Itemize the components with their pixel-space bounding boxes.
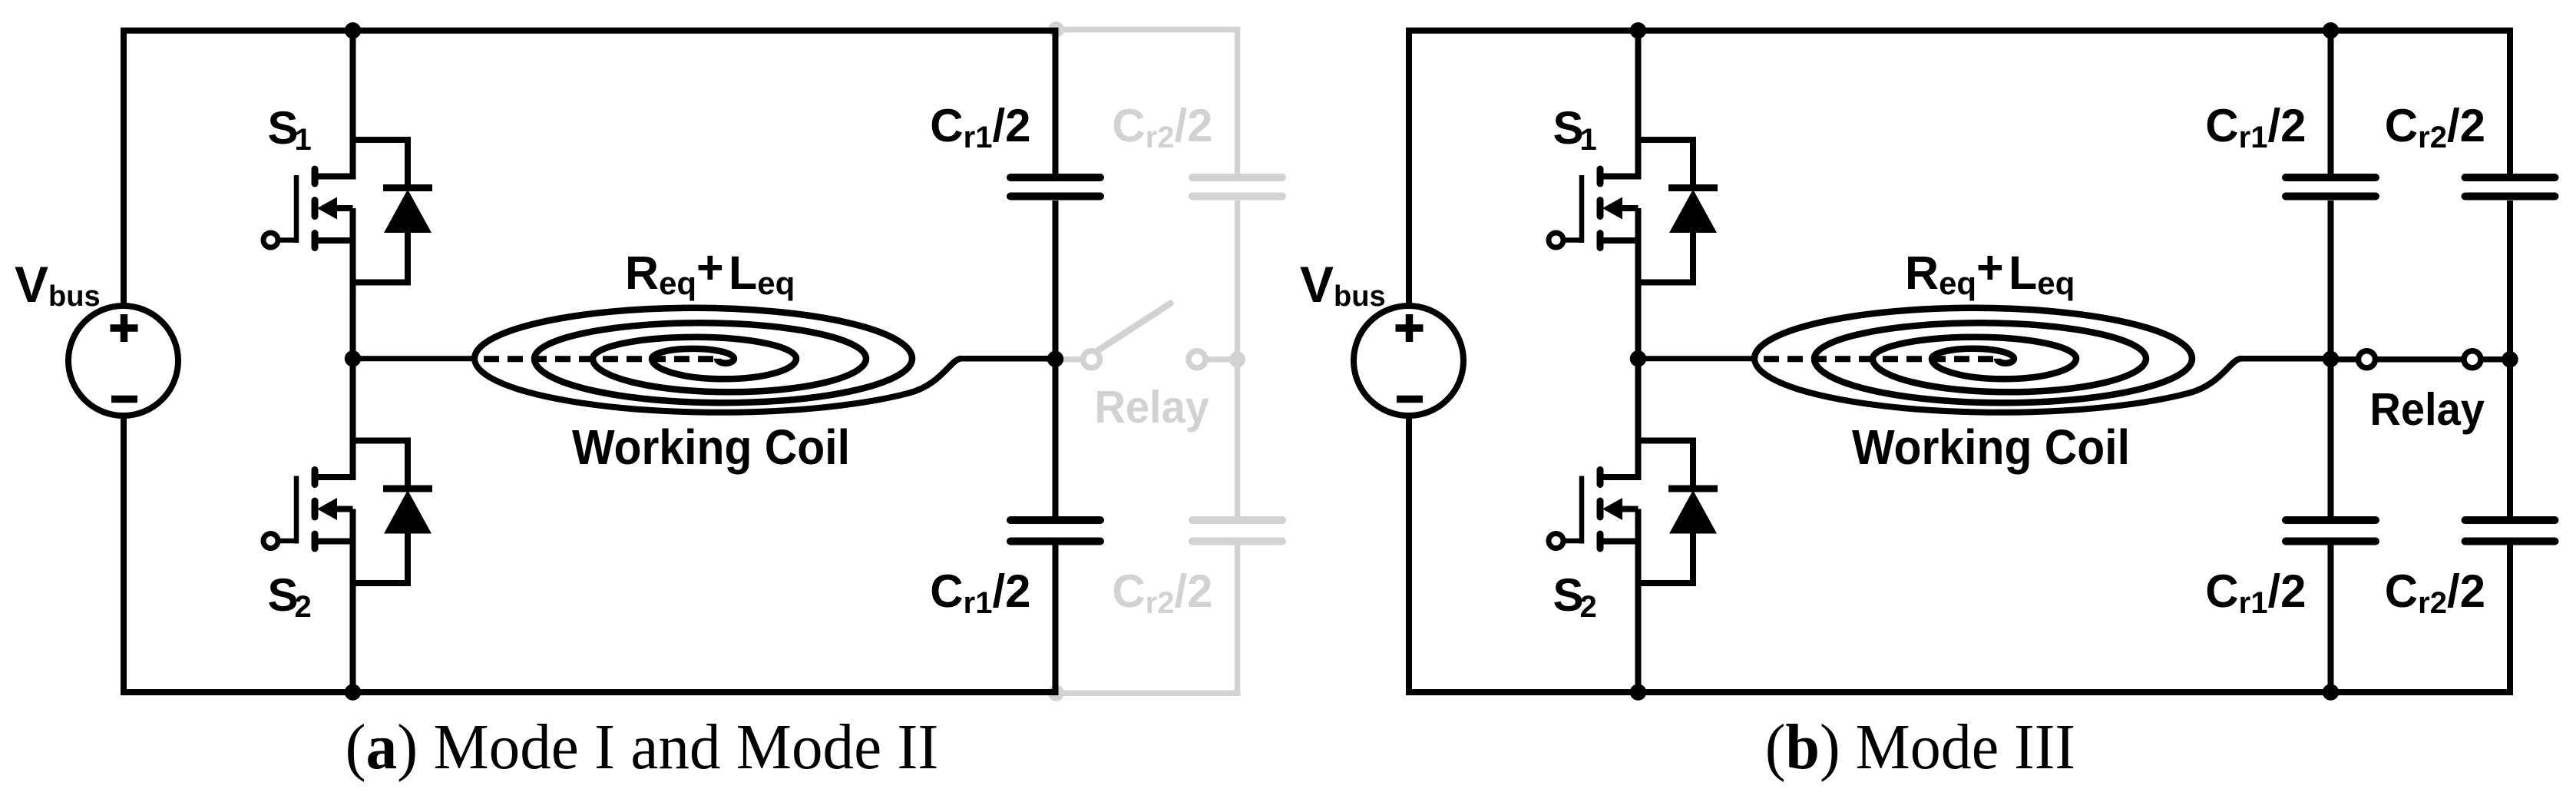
- relay blade closed (b): [2367, 356, 2473, 363]
- wire Cr1 leg upper (b): [2328, 31, 2334, 174]
- wire Cr2 leg upper (a): [1235, 30, 1241, 174]
- wire Cr2 leg middle (a): [1235, 201, 1241, 517]
- node bottom rail / centre leg (b): [1630, 684, 1646, 700]
- svg-text:+: +: [1976, 241, 2004, 293]
- label Vbus (a): [15, 256, 101, 313]
- wire Cr1 leg middle (b): [2328, 201, 2334, 517]
- label Cr1/2 top (b): [2205, 100, 2306, 154]
- label Relay (b): [2369, 385, 2485, 436]
- wire coil exit tail (b): [1754, 359, 2241, 413]
- wire left rail upper (a): [121, 31, 127, 307]
- transistor S1 (b): [1549, 169, 1642, 248]
- transistor S1 (a): [263, 169, 356, 248]
- node top rail / centre leg (b): [1630, 22, 1646, 38]
- wire centre leg middle (b): [1635, 240, 1642, 477]
- wire relay left stub (a): [1056, 356, 1092, 363]
- wire Cr2 leg middle (b): [2507, 201, 2513, 517]
- wire coil axis dashed (a): [484, 356, 720, 362]
- wire mid node to coil (a): [353, 356, 477, 361]
- wire Cr1 leg lower (a): [1053, 545, 1059, 693]
- wire centre leg drain S1 (a): [350, 31, 356, 177]
- wire top rail (a): [121, 28, 1059, 34]
- svg-text:Relay: Relay: [1094, 383, 1209, 433]
- transistor S2 (b): [1549, 470, 1642, 549]
- wire left rail upper (b): [1406, 31, 1412, 307]
- label S2 (a): [268, 569, 312, 624]
- transistor S2 (a): [263, 470, 356, 549]
- capacitor Cr1/2 top (b): [2286, 177, 2376, 197]
- node grey bottom junction (a): [1048, 685, 1064, 701]
- label Working Coil (b): [1852, 420, 2130, 476]
- diode S1 body (b): [1639, 140, 1718, 283]
- svg-text:Working Coil: Working Coil: [572, 420, 850, 476]
- wire top rail Cr2 branch (b): [2331, 28, 2514, 34]
- wire bottom rail Cr2 branch (b): [2331, 689, 2514, 695]
- label Cr2/2 bottom (a): [1112, 565, 1212, 620]
- label S1 (a): [268, 102, 312, 157]
- node grey relay-leg junction (a): [1229, 351, 1245, 367]
- diode S2 body (a): [353, 441, 433, 584]
- wire coil exit tail (a): [475, 359, 961, 413]
- wire relay right stub (a): [1197, 356, 1238, 363]
- wire bottom rail (b): [1406, 689, 2334, 695]
- inductor working coil spiral (b): [1754, 308, 2192, 403]
- caption (b) Mode III: [1765, 711, 2075, 782]
- label Cr1/2 bottom (a): [930, 565, 1030, 620]
- diode S1 body (a): [353, 140, 433, 283]
- voltage source Vbus (a): [68, 306, 178, 416]
- wire Cr2 leg lower (b): [2507, 545, 2513, 693]
- label Relay (a): [1094, 383, 1209, 433]
- wire top rail Cr2 branch (a): [1056, 27, 1241, 33]
- wire coil axis dashed (b): [1764, 356, 2000, 362]
- label Cr2/2 top (a): [1112, 100, 1212, 154]
- svg-text:Working Coil: Working Coil: [1852, 420, 2130, 476]
- wire centre leg drain S1 (b): [1635, 31, 1642, 177]
- wire top rail (b): [1406, 28, 2334, 34]
- node mid / Cr1 leg (a): [1047, 351, 1063, 367]
- node relay right junction (b): [2502, 351, 2518, 367]
- node bottom rail / centre leg (a): [345, 684, 361, 700]
- wire relay left stub (b): [2331, 356, 2367, 363]
- node mid / Cr1 leg (b): [2323, 351, 2339, 367]
- capacitor Cr2/2 bottom (a): [1192, 520, 1282, 542]
- node grey top junction (a): [1048, 22, 1064, 38]
- capacitor Cr1/2 bottom (a): [1010, 520, 1100, 542]
- relay contact circle right (b): [2464, 351, 2481, 368]
- capacitor Cr2/2 top (a): [1192, 177, 1282, 197]
- label Working Coil (a): [572, 420, 850, 476]
- label Cr2/2 top (b): [2385, 100, 2485, 154]
- wire Cr1 leg lower (b): [2328, 545, 2334, 693]
- wire Cr1 leg upper (a): [1053, 31, 1059, 174]
- svg-text:+: +: [696, 241, 724, 293]
- wire coil to Cr1 leg (b): [2240, 356, 2334, 362]
- wire left rail lower (b): [1406, 416, 1412, 693]
- caption (a) Mode I and Mode II: [346, 711, 939, 783]
- wire Cr2 leg lower (a): [1235, 545, 1241, 694]
- inductor working coil spiral (a): [475, 308, 912, 403]
- svg-text:(a) Mode I and Mode II: (a) Mode I and Mode II: [346, 711, 939, 783]
- wire coil to Cr1 leg (a): [960, 356, 1059, 362]
- wire Cr2 leg upper (b): [2507, 31, 2513, 174]
- wire bottom rail Cr2 branch (a): [1056, 690, 1241, 696]
- wire relay right stub (b): [2472, 356, 2510, 363]
- voltage source Vbus (b): [1354, 306, 1463, 416]
- wire mid node to coil (b): [1639, 356, 1757, 361]
- capacitor Cr2/2 top (b): [2465, 177, 2555, 197]
- svg-text:(b) Mode III: (b) Mode III: [1765, 711, 2075, 782]
- node mid / centre leg (a): [345, 350, 361, 366]
- wire centre leg source S2 (b): [1635, 542, 1642, 693]
- label Vbus (b): [1300, 256, 1386, 313]
- label S1 (b): [1553, 102, 1597, 157]
- relay contact circle right (a): [1189, 351, 1205, 368]
- relay contact circle left (b): [2359, 351, 2376, 368]
- label Cr1/2 bottom (b): [2205, 565, 2306, 620]
- wire bottom rail (a): [121, 689, 1059, 695]
- label Cr1/2 top (a): [930, 100, 1030, 154]
- label Req + Leq (b): [1905, 241, 2075, 301]
- capacitor Cr1/2 top (a): [1010, 177, 1100, 197]
- node top rail / Cr1 leg (b): [2323, 22, 2339, 38]
- node top rail / centre leg (a): [345, 22, 361, 38]
- wire Cr1 leg middle (a): [1053, 201, 1059, 517]
- label Req + Leq (a): [625, 241, 795, 301]
- wire centre leg source S2 (a): [350, 542, 356, 693]
- capacitor Cr1/2 bottom (b): [2286, 520, 2376, 542]
- label S2 (b): [1553, 569, 1597, 624]
- capacitor Cr2/2 bottom (b): [2465, 520, 2555, 542]
- wire left rail lower (a): [121, 416, 127, 693]
- relay contact circle left (a): [1083, 351, 1100, 368]
- wire centre leg middle (a): [350, 240, 356, 477]
- node bottom rail / Cr1 leg (b): [2323, 684, 2339, 700]
- label Cr2/2 bottom (b): [2385, 565, 2485, 620]
- relay blade open (a): [1099, 303, 1171, 350]
- diode S2 body (b): [1639, 441, 1718, 584]
- svg-text:Relay: Relay: [2369, 385, 2485, 436]
- node mid / centre leg (b): [1630, 350, 1646, 366]
